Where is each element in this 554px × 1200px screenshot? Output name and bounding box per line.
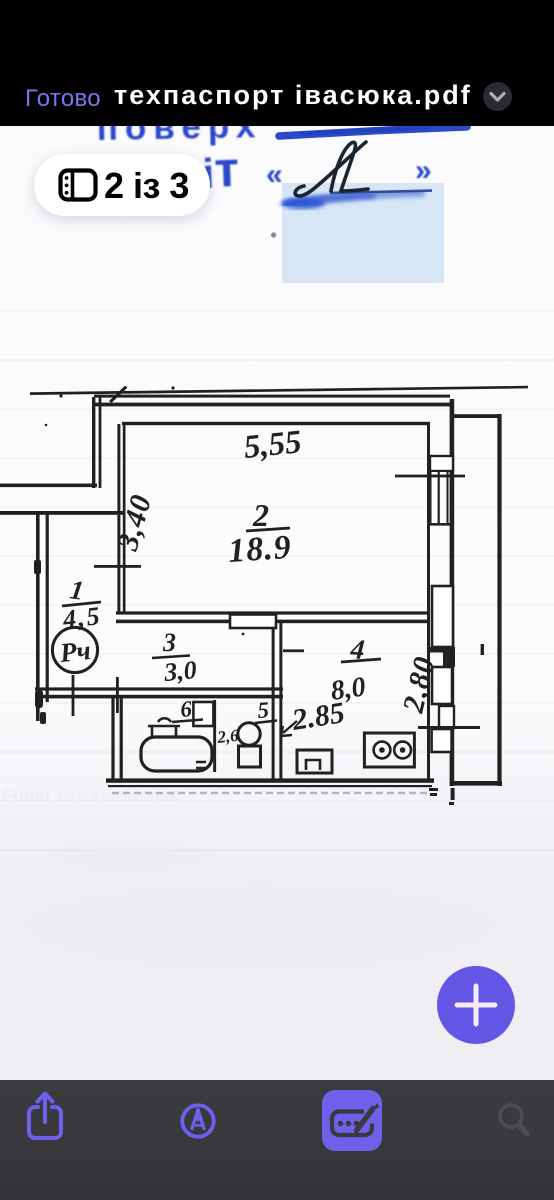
left lower outer wall xyxy=(36,514,40,721)
window: box 3 xyxy=(432,667,452,704)
window: large box xyxy=(432,586,453,647)
svg-text:Frond: Frond xyxy=(2,786,50,805)
header bar xyxy=(0,0,554,126)
floating plus button xyxy=(437,966,515,1044)
svg-text:т: т xyxy=(213,141,239,198)
handwritten script letter A xyxy=(295,142,368,196)
toilet xyxy=(238,723,260,745)
svg-text:2,80: 2,80 xyxy=(396,653,441,716)
room right inner wall (window band inner line) xyxy=(427,424,430,782)
window pane double lines below xyxy=(431,471,448,524)
outer top wall (double) xyxy=(94,395,450,398)
wall ink blobs xyxy=(34,560,41,574)
bath tub xyxy=(141,737,212,771)
svg-text:18.9: 18.9 xyxy=(227,529,293,570)
dimension tick room2 window xyxy=(395,475,465,478)
svg-text:2,6: 2,6 xyxy=(215,726,240,747)
room 2 top inner wall xyxy=(122,422,430,425)
svg-text:«: « xyxy=(266,158,283,191)
stamp circle xyxy=(52,627,97,672)
bottom toolbar xyxy=(0,1080,554,1200)
door opening room 2 xyxy=(230,615,276,629)
hall bottom wall (double) xyxy=(35,687,283,690)
wall ledge upper xyxy=(0,484,97,488)
svg-text:2.85: 2.85 xyxy=(289,696,347,737)
blue smudge underline xyxy=(288,192,421,204)
svg-text:2: 2 xyxy=(252,497,269,533)
fraction line room3 xyxy=(152,656,190,659)
fraction line xyxy=(246,528,290,531)
stray specks xyxy=(59,394,62,397)
svg-text:5,55: 5,55 xyxy=(242,424,303,466)
toolbar: share icon xyxy=(24,1086,68,1146)
kitchen door tick xyxy=(283,649,304,652)
header: chevron button xyxy=(481,80,514,113)
svg-text:6: 6 xyxy=(179,696,193,722)
faint ruled show-through lines xyxy=(0,311,554,850)
window: room2 small top box xyxy=(430,456,453,471)
balcony bottom wall xyxy=(451,781,502,786)
header: Готово button xyxy=(25,85,101,113)
page indicator pill xyxy=(34,154,210,216)
pill text xyxy=(104,165,189,207)
svg-text:Рч: Рч xyxy=(57,635,92,668)
tick crossing bath left wall xyxy=(116,677,119,713)
svg-text:3,0: 3,0 xyxy=(162,655,198,687)
dimension tick balcony door xyxy=(418,726,480,729)
faint page blobs xyxy=(20,877,500,973)
svg-text:4,5: 4,5 xyxy=(61,601,103,634)
scan page top boundary line xyxy=(30,386,528,395)
dark chunk between windows xyxy=(428,647,455,653)
balcony right wall xyxy=(497,414,501,786)
svg-text:3: 3 xyxy=(162,628,176,657)
svg-text:1: 1 xyxy=(68,574,86,606)
kitchen sink xyxy=(297,750,332,773)
fraction line room5 xyxy=(255,721,277,724)
toolbar: search icon xyxy=(494,1100,538,1144)
svg-text:»: » xyxy=(415,154,432,187)
toolbar: selected fill&sign tool xyxy=(322,1090,382,1151)
fraction line room4 xyxy=(341,659,381,662)
stray diagonal mark top-left xyxy=(109,386,127,403)
dash on balcony wall xyxy=(481,644,484,655)
tick crossing hall wall left xyxy=(72,675,75,716)
window: box 4 xyxy=(432,729,452,752)
wall ledge lower xyxy=(0,511,125,515)
right outer wall xyxy=(450,399,455,786)
stove xyxy=(364,733,414,767)
upper-left outer wall vertical xyxy=(92,397,95,488)
window: box 3b xyxy=(439,706,454,728)
handwritten room/dimension labels xyxy=(57,424,441,747)
gray speck near rect xyxy=(271,232,276,237)
window mid connector xyxy=(427,523,454,526)
mid wall between room 2 and rooms 3-4 (double) xyxy=(116,611,428,614)
fraction line room1 xyxy=(62,602,101,606)
tick on room 2 left wall xyxy=(94,565,141,568)
header: title xyxy=(114,80,472,111)
blue strike line xyxy=(279,127,467,136)
light blue highlight rect xyxy=(282,183,444,283)
kitchen/corridor wall vertical (double) xyxy=(272,623,275,779)
door opening bathroom xyxy=(193,702,213,726)
wall end marks bottom right xyxy=(429,788,438,791)
fraction line room6 xyxy=(172,720,203,723)
balcony top wall xyxy=(453,414,501,418)
svg-text:5: 5 xyxy=(257,697,270,723)
svg-text:tal sul wittrivsimss: tal sul wittrivsimss xyxy=(58,788,178,805)
bath / toilet separator wall xyxy=(213,700,216,772)
arrow for 2.85 xyxy=(281,721,297,736)
room 2 left wall xyxy=(117,424,120,614)
pill icon xyxy=(58,168,98,203)
bathroom left wall (double) xyxy=(111,698,114,780)
bottom outer wall xyxy=(106,778,434,782)
tub tap xyxy=(148,718,180,737)
toolbar: markup pen icon xyxy=(179,1102,217,1140)
